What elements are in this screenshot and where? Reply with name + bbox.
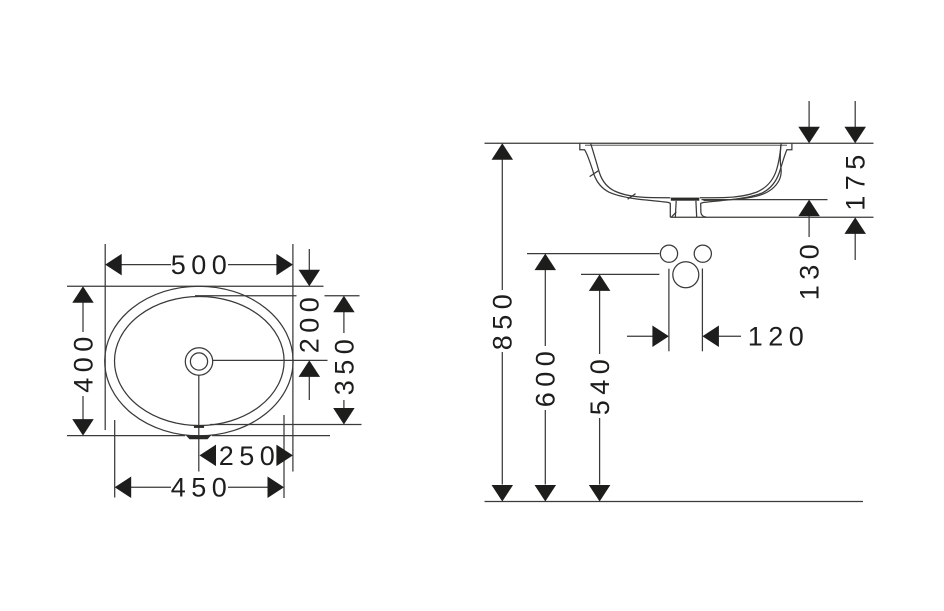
- svg-text:120: 120: [748, 322, 810, 352]
- svg-text:350: 350: [329, 334, 359, 396]
- svg-text:600: 600: [531, 346, 561, 408]
- svg-text:850: 850: [488, 289, 518, 351]
- svg-text:250: 250: [219, 441, 281, 471]
- svg-text:450: 450: [171, 473, 233, 503]
- svg-text:500: 500: [171, 250, 233, 280]
- svg-text:400: 400: [68, 331, 98, 393]
- svg-text:175: 175: [841, 149, 871, 211]
- svg-text:200: 200: [295, 292, 325, 354]
- svg-text:130: 130: [795, 239, 825, 301]
- svg-text:540: 540: [585, 354, 615, 416]
